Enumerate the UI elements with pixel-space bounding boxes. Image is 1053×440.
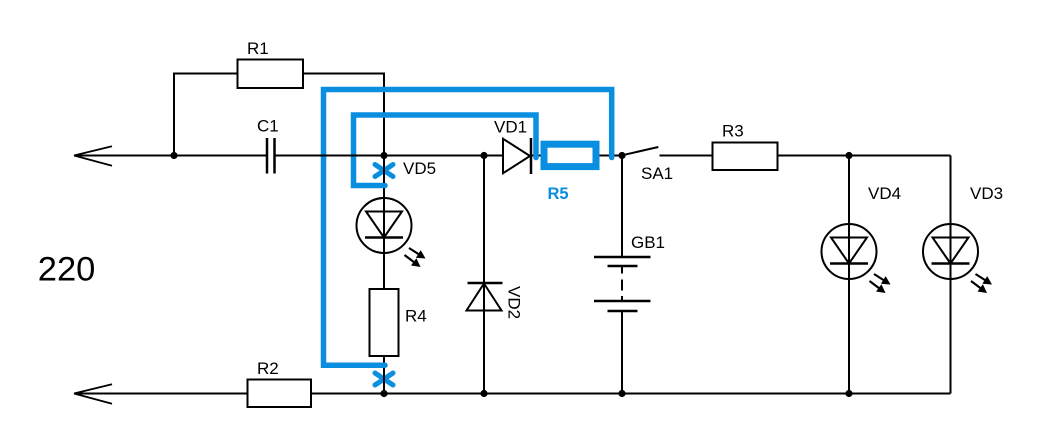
svg-text:SA1: SA1: [641, 164, 673, 183]
svg-text:C1: C1: [257, 117, 279, 136]
svg-text:VD5: VD5: [403, 159, 436, 178]
svg-text:VD4: VD4: [868, 184, 901, 203]
svg-text:VD2: VD2: [505, 286, 524, 319]
svg-text:GB1: GB1: [631, 233, 665, 252]
svg-text:R5: R5: [548, 185, 569, 203]
svg-text:220: 220: [38, 251, 96, 289]
svg-text:R1: R1: [247, 39, 269, 58]
svg-text:R4: R4: [405, 307, 427, 326]
svg-text:VD1: VD1: [494, 118, 527, 137]
svg-text:VD3: VD3: [970, 184, 1003, 203]
svg-text:R3: R3: [722, 122, 744, 141]
svg-text:R2: R2: [257, 359, 279, 378]
